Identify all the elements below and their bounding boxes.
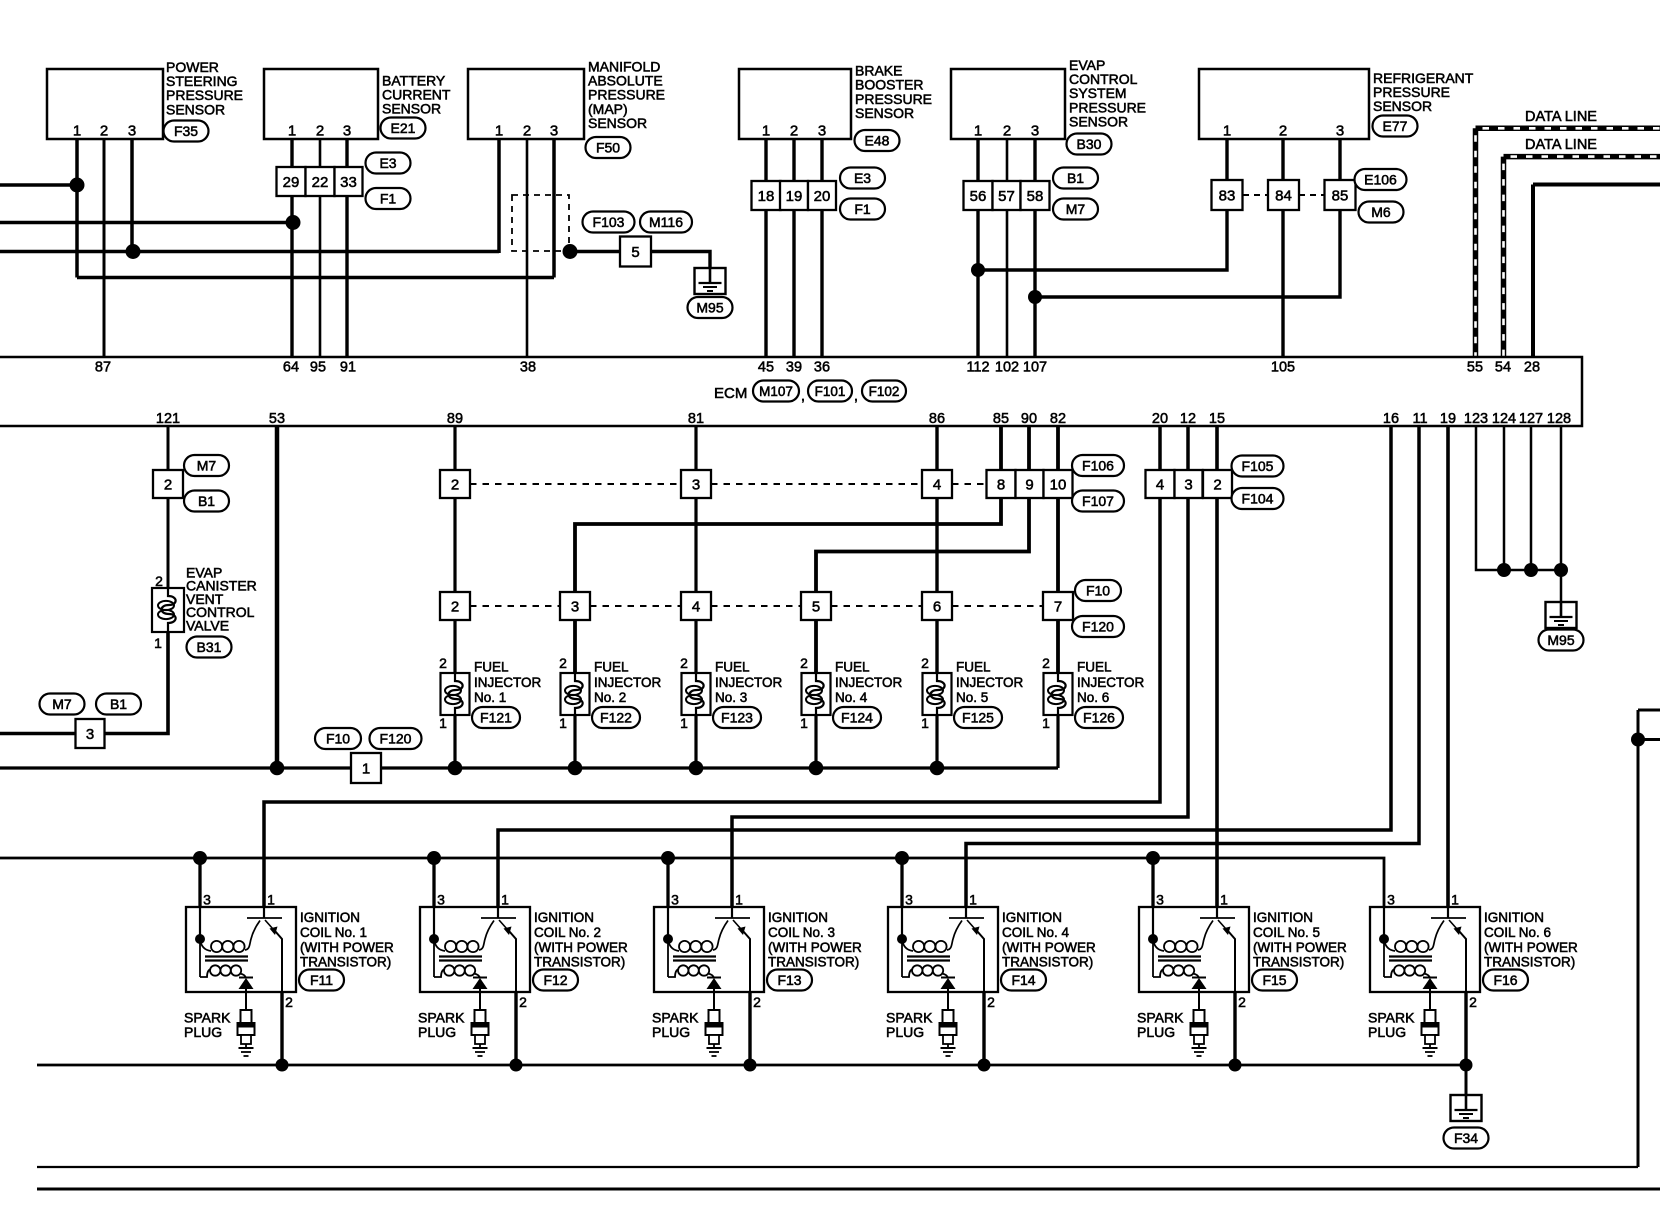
wire E77 pin 3 down and left to evap pin 3 bbox=[1035, 139, 1340, 297]
svg-text:3: 3 bbox=[905, 892, 913, 908]
label IGNITION COIL No. 1 bbox=[300, 910, 394, 970]
svg-text:16: 16 bbox=[1383, 411, 1399, 427]
svg-text:F1: F1 bbox=[854, 201, 871, 217]
svg-text:1: 1 bbox=[974, 123, 982, 140]
connector oval M6 bbox=[1359, 202, 1404, 223]
svg-text:B30: B30 bbox=[1077, 136, 1102, 152]
wire injector 2 to bus bbox=[573, 715, 576, 768]
svg-text:5: 5 bbox=[812, 599, 820, 616]
fuel injector No. 1 coil bbox=[441, 673, 470, 715]
connector oval E48 bbox=[855, 130, 900, 151]
svg-text:F120: F120 bbox=[1082, 619, 1114, 635]
connector oval B31 bbox=[187, 637, 232, 658]
svg-text:F10: F10 bbox=[326, 731, 350, 747]
svg-text:F121: F121 bbox=[480, 710, 512, 726]
svg-text:3: 3 bbox=[818, 123, 826, 140]
connector oval B1 (evap sensor) bbox=[1053, 168, 1098, 189]
fuel injector No. 4 coil bbox=[802, 673, 831, 715]
ground symbol M95 (ECM grounds) bbox=[1546, 602, 1577, 628]
label EVAP CONTROL SYSTEM PRESSURE SENSOR bbox=[1069, 57, 1146, 129]
svg-text:SENSOR: SENSOR bbox=[382, 101, 441, 117]
wire F35 pin 3 down to net C bbox=[130, 139, 134, 252]
svg-text:124: 124 bbox=[1492, 411, 1516, 427]
connector oval E3 (battery) bbox=[366, 153, 411, 174]
connector block 18 19 20 bbox=[752, 181, 837, 210]
connector box 4 (row1 inj5) bbox=[922, 470, 952, 498]
svg-text:56: 56 bbox=[970, 188, 987, 205]
svg-text:PLUG: PLUG bbox=[886, 1024, 924, 1040]
pin labels 1 2 3 of E48 bbox=[762, 123, 826, 140]
svg-text:2: 2 bbox=[987, 994, 995, 1010]
connector block 83 bbox=[1212, 180, 1243, 210]
wire ECM 82 to injector 6 bbox=[1056, 426, 1060, 673]
svg-text:FUEL: FUEL bbox=[956, 660, 991, 675]
svg-text:DATA LINE: DATA LINE bbox=[1525, 137, 1597, 153]
connector box 1 on bus bbox=[351, 753, 381, 783]
svg-text:1: 1 bbox=[559, 715, 567, 731]
svg-text:3: 3 bbox=[203, 892, 211, 908]
svg-text:90: 90 bbox=[1021, 411, 1037, 427]
connector block 8 9 10 bbox=[987, 470, 1073, 498]
wire ECM 90 to injector 4 (via jog) bbox=[816, 426, 1029, 673]
svg-text:39: 39 bbox=[786, 360, 802, 376]
ECM label with connector ovals M107 F101 F102 bbox=[714, 381, 906, 405]
svg-text:(WITH POWER: (WITH POWER bbox=[1002, 940, 1096, 955]
spark plug coil 4 bbox=[940, 992, 957, 1056]
junction dot coil 4 pin 2 on ground bus bbox=[978, 1059, 991, 1072]
svg-text:F16: F16 bbox=[1493, 972, 1517, 988]
svg-text:IGNITION: IGNITION bbox=[1002, 910, 1062, 925]
label SPARK PLUG coil 3 bbox=[652, 1010, 699, 1041]
label IGNITION COIL No. 5 bbox=[1253, 910, 1347, 970]
wire injector 6 to bus bbox=[1056, 715, 1059, 768]
svg-text:DATA LINE: DATA LINE bbox=[1525, 109, 1597, 125]
connector oval M95 (ECM grounds) bbox=[1539, 630, 1584, 651]
fuel injector No. 3 coil bbox=[682, 673, 711, 715]
svg-text:INJECTOR: INJECTOR bbox=[594, 675, 662, 690]
wire injector 4 to bus bbox=[814, 715, 817, 768]
svg-text:91: 91 bbox=[340, 360, 356, 376]
wire net A from left edge bbox=[0, 183, 77, 187]
svg-text:3: 3 bbox=[1031, 123, 1039, 140]
ignition ground bus bbox=[37, 1064, 1466, 1067]
data line 2 vertical to ECM 54 bbox=[1501, 157, 1507, 356]
svg-text:2: 2 bbox=[559, 655, 567, 671]
svg-text:3: 3 bbox=[86, 726, 94, 743]
svg-text:1: 1 bbox=[921, 715, 929, 731]
connector oval F105 bbox=[1232, 456, 1284, 477]
connector oval F124 bbox=[833, 707, 881, 728]
svg-text:No. 4: No. 4 bbox=[835, 690, 868, 705]
svg-text:B1: B1 bbox=[1067, 170, 1084, 186]
wire right edge vertical bbox=[1637, 710, 1640, 1167]
pin labels 1 2 3 of E77 bbox=[1223, 123, 1344, 140]
connector oval F50 bbox=[586, 137, 631, 158]
svg-text:81: 81 bbox=[688, 411, 704, 427]
svg-text:2: 2 bbox=[439, 655, 447, 671]
svg-text:COIL No. 6: COIL No. 6 bbox=[1484, 925, 1551, 940]
label FUEL INJECTOR No. 1 bbox=[474, 660, 542, 706]
label SPARK PLUG coil 1 bbox=[184, 1010, 231, 1041]
connector block 85 bbox=[1325, 180, 1356, 210]
wire bus to coil 2 pin 3 bbox=[432, 858, 435, 918]
svg-text:3: 3 bbox=[128, 123, 136, 140]
svg-text:INJECTOR: INJECTOR bbox=[835, 675, 903, 690]
svg-text:2: 2 bbox=[921, 655, 929, 671]
svg-text:2: 2 bbox=[800, 655, 808, 671]
power steering pressure sensor box F35 bbox=[47, 69, 163, 139]
connector oval F16 bbox=[1483, 970, 1528, 991]
connector oval B30 bbox=[1067, 134, 1112, 155]
wire B30 pin 2 to ECM 102 bbox=[1006, 139, 1009, 356]
ECM box bbox=[0, 357, 1582, 426]
junction dot coil 5 pin 3 on bus bbox=[1146, 851, 1160, 865]
junction dot C on power steering pin 3 bbox=[126, 244, 141, 259]
svg-text:F123: F123 bbox=[721, 710, 753, 726]
label SPARK PLUG coil 2 bbox=[418, 1010, 465, 1041]
svg-text:2: 2 bbox=[1279, 123, 1287, 140]
svg-text:No. 1: No. 1 bbox=[474, 690, 506, 705]
junction dot injector 3 on bus bbox=[689, 761, 704, 776]
label FUEL INJECTOR No. 3 bbox=[715, 660, 783, 706]
svg-text:M116: M116 bbox=[649, 214, 683, 230]
label FUEL INJECTOR No. 5 bbox=[956, 660, 1024, 706]
ignition coil No. 2 with power transistor bbox=[420, 907, 530, 992]
connector oval F120 (bus) bbox=[370, 728, 422, 749]
svg-text:3: 3 bbox=[1336, 123, 1344, 140]
label MANIFOLD ABSOLUTE PRESSURE (MAP) SENSOR bbox=[588, 59, 665, 131]
label IGNITION COIL No. 3 bbox=[768, 910, 862, 970]
spark plug coil 2 bbox=[472, 992, 489, 1056]
svg-text:8: 8 bbox=[997, 477, 1005, 494]
svg-text:IGNITION: IGNITION bbox=[300, 910, 360, 925]
connector oval F106 bbox=[1072, 455, 1124, 476]
wire E21 pin 1 to ECM 64 bbox=[290, 139, 293, 356]
wire ECM 20 to ignition coil 1 pin 1 bbox=[264, 426, 1160, 918]
junction dot coil 6 pin 2 on ground bus bbox=[1460, 1059, 1473, 1072]
wire coil 6 pin 2 to ground bus bbox=[1464, 992, 1467, 1065]
junction dot injector 4 on bus bbox=[809, 761, 824, 776]
connector oval E77 bbox=[1373, 116, 1418, 137]
svg-text:No. 5: No. 5 bbox=[956, 690, 988, 705]
label SPARK PLUG coil 5 bbox=[1137, 1010, 1184, 1041]
wire connector 5 to ground bbox=[651, 252, 710, 269]
pin labels 1 2 3 of F35 bbox=[73, 123, 136, 140]
connector oval M95 (sensor shield) bbox=[688, 297, 733, 318]
svg-text:105: 105 bbox=[1271, 360, 1295, 376]
connector box 2 (row2 inj1) bbox=[440, 592, 470, 620]
svg-text:F120: F120 bbox=[380, 731, 412, 747]
svg-text:COIL No. 5: COIL No. 5 bbox=[1253, 925, 1320, 940]
label IGNITION COIL No. 2 bbox=[534, 910, 628, 970]
svg-text:PLUG: PLUG bbox=[1137, 1024, 1175, 1040]
svg-text:2: 2 bbox=[790, 123, 798, 140]
junction dot right edge bbox=[1631, 733, 1645, 747]
connector oval F34 bbox=[1444, 1128, 1489, 1149]
junction dot coil 1 pin 2 on ground bus bbox=[276, 1059, 289, 1072]
connector box 7 (row2 inj6) bbox=[1043, 592, 1073, 620]
svg-text:57: 57 bbox=[998, 188, 1015, 205]
connector box 4 (row2 inj3) bbox=[681, 592, 711, 620]
connector block 29 22 33 bbox=[277, 167, 363, 196]
wire ECM 124 down bbox=[1503, 426, 1506, 570]
manifold absolute pressure sensor box F50 bbox=[468, 69, 584, 139]
wire injector 5 to bus bbox=[935, 715, 938, 768]
svg-text:M95: M95 bbox=[696, 300, 723, 316]
data line 1 vertical to ECM 55 bbox=[1473, 128, 1479, 356]
svg-text:20: 20 bbox=[1152, 411, 1168, 427]
svg-text:3: 3 bbox=[437, 892, 445, 908]
svg-text:M7: M7 bbox=[1066, 201, 1086, 217]
connector row F106/F107 dashed links bbox=[470, 483, 987, 485]
connector oval F107 bbox=[1072, 491, 1124, 512]
svg-text:112: 112 bbox=[966, 360, 989, 376]
svg-text:95: 95 bbox=[310, 360, 326, 376]
wire B30 pin 1 to ECM 112 bbox=[976, 139, 979, 356]
connector oval F123 bbox=[713, 707, 761, 728]
pin labels 1 2 3 of B30 bbox=[974, 123, 1039, 140]
wire net C from left edge (sensor ground) bbox=[0, 250, 499, 254]
svg-text:2: 2 bbox=[155, 573, 163, 589]
svg-text:INJECTOR: INJECTOR bbox=[956, 675, 1024, 690]
svg-text:COIL No. 1: COIL No. 1 bbox=[300, 925, 367, 940]
svg-text:6: 6 bbox=[933, 599, 941, 616]
connector oval M116 bbox=[640, 212, 692, 233]
svg-text:2: 2 bbox=[519, 994, 527, 1010]
wire E48 pin 1 to ECM 45 bbox=[764, 139, 767, 356]
svg-text:B1: B1 bbox=[198, 493, 215, 509]
svg-text:F105: F105 bbox=[1242, 458, 1274, 474]
svg-text:2: 2 bbox=[100, 123, 108, 140]
svg-text:1: 1 bbox=[762, 123, 770, 140]
wire E48 pin 3 to ECM 36 bbox=[820, 139, 823, 356]
shield dashed box around MAP pin 2 wire bbox=[512, 195, 569, 251]
svg-text:28: 28 bbox=[1524, 360, 1540, 376]
junction dot A on power steering pin 1 bbox=[70, 178, 85, 193]
svg-text:10: 10 bbox=[1050, 477, 1067, 494]
wire ECM 89 to injector 1 bbox=[453, 426, 456, 673]
svg-text:3: 3 bbox=[671, 892, 679, 908]
junction dot 127 bbox=[1524, 563, 1538, 577]
wire E77 pin 2 to ECM 105 bbox=[1281, 139, 1284, 356]
wire E21 pin 2 to ECM 95 bbox=[319, 139, 322, 356]
connector box 2 (evap valve) bbox=[153, 470, 183, 498]
wire connector 3 to left edge bbox=[0, 732, 76, 736]
svg-text:53: 53 bbox=[269, 411, 285, 427]
wire ECM 53 down to bus bbox=[275, 426, 280, 768]
svg-text:1: 1 bbox=[735, 892, 743, 908]
svg-text:F124: F124 bbox=[841, 710, 873, 726]
svg-text:45: 45 bbox=[758, 360, 774, 376]
svg-text:102: 102 bbox=[995, 360, 1019, 376]
wire shield drain to connector 5 bbox=[570, 250, 620, 253]
label BRAKE BOOSTER PRESSURE SENSOR bbox=[855, 63, 932, 121]
svg-text:No. 6: No. 6 bbox=[1077, 690, 1109, 705]
wire F50 pin 2 to ECM 38 bbox=[526, 139, 529, 356]
svg-text:84: 84 bbox=[1275, 188, 1292, 205]
junction dot injector 2 on bus bbox=[568, 761, 583, 776]
svg-text:3: 3 bbox=[1387, 892, 1395, 908]
connector box 5 (row2 inj4) bbox=[801, 592, 831, 620]
evap canister vent control valve coil B31 bbox=[152, 588, 184, 632]
connector box 3 (row1 inj3) bbox=[681, 470, 711, 498]
data line 2 horizontal (shielded) bbox=[1504, 154, 1660, 160]
svg-text:89: 89 bbox=[447, 411, 463, 427]
dashed link 84-85 bbox=[1299, 194, 1325, 196]
wire coil 3 pin 2 to ground bus bbox=[748, 992, 751, 1065]
svg-text:PLUG: PLUG bbox=[184, 1024, 222, 1040]
svg-text:F50: F50 bbox=[596, 140, 620, 156]
dashed link 83-84 bbox=[1243, 194, 1268, 196]
svg-text:COIL No. 4: COIL No. 4 bbox=[1002, 925, 1070, 940]
svg-text:20: 20 bbox=[814, 188, 831, 205]
svg-text:F34: F34 bbox=[1454, 1130, 1478, 1146]
svg-text:COIL No. 2: COIL No. 2 bbox=[534, 925, 601, 940]
wire ECM 16 to ignition coil 2 pin 1 bbox=[498, 426, 1391, 918]
svg-text:E21: E21 bbox=[391, 120, 416, 136]
svg-text:3: 3 bbox=[571, 599, 579, 616]
svg-text:38: 38 bbox=[520, 360, 536, 376]
svg-text:E77: E77 bbox=[1383, 118, 1408, 134]
svg-text:SENSOR: SENSOR bbox=[588, 115, 647, 131]
spark plug coil 6 bbox=[1422, 992, 1439, 1056]
connector box 3 bbox=[76, 719, 105, 748]
junction dot coil 3 pin 3 on bus bbox=[661, 851, 675, 865]
label FUEL INJECTOR No. 4 bbox=[835, 660, 903, 706]
ignition coil supply bus bbox=[0, 858, 1384, 918]
svg-text:VALVE: VALVE bbox=[186, 617, 229, 633]
connector oval E3 (brake booster) bbox=[840, 168, 885, 189]
data line 1 horizontal (shielded) bbox=[1476, 126, 1660, 132]
connector oval F1 (battery) bbox=[366, 188, 411, 209]
wire coil 1 pin 2 to ground bus bbox=[280, 992, 283, 1065]
connector oval F126 bbox=[1075, 707, 1123, 728]
svg-text:PLUG: PLUG bbox=[1368, 1024, 1406, 1040]
svg-text:F14: F14 bbox=[1011, 972, 1035, 988]
svg-text:1: 1 bbox=[288, 123, 296, 140]
brake booster pressure sensor box E48 bbox=[739, 69, 851, 139]
svg-text:M6: M6 bbox=[1371, 204, 1391, 220]
svg-text:1: 1 bbox=[680, 715, 688, 731]
wire ECM 12 to ignition coil 3 pin 1 bbox=[732, 426, 1188, 918]
wire ECM 15 to ignition coil 5 pin 1 bbox=[1215, 426, 1219, 918]
svg-text:F125: F125 bbox=[962, 710, 994, 726]
svg-text:82: 82 bbox=[1050, 411, 1066, 427]
svg-text:B31: B31 bbox=[197, 639, 222, 655]
svg-text:3: 3 bbox=[550, 123, 558, 140]
junction dot coil 4 pin 3 on bus bbox=[895, 851, 909, 865]
svg-text:SENSOR: SENSOR bbox=[855, 105, 914, 121]
ignition coil No. 3 with power transistor bbox=[654, 907, 764, 992]
wire bus to coil 5 pin 3 bbox=[1151, 858, 1154, 918]
fuel injector No. 5 coil bbox=[923, 673, 952, 715]
svg-text:3: 3 bbox=[1184, 477, 1192, 494]
svg-text:E106: E106 bbox=[1364, 172, 1397, 188]
svg-text:M95: M95 bbox=[1547, 632, 1574, 648]
junction dot evap pin1 / refrigerant pin1 bbox=[971, 263, 985, 277]
svg-text:No. 3: No. 3 bbox=[715, 690, 747, 705]
connector oval M7 (valve top) bbox=[184, 455, 229, 476]
pin labels 1 2 3 of E21 bbox=[288, 123, 351, 140]
refrigerant pressure sensor box E77 bbox=[1199, 69, 1369, 139]
label SPARK PLUG coil 4 bbox=[886, 1010, 933, 1041]
svg-text:M7: M7 bbox=[197, 458, 217, 474]
wire E77 pin 1 down and left to evap pin 1 bbox=[978, 139, 1227, 270]
wire ECM 19 to ignition coil 6 pin 1 bbox=[1446, 426, 1450, 918]
label SPARK PLUG coil 6 bbox=[1368, 1010, 1415, 1041]
wire MAP pin 3 down bbox=[552, 139, 556, 278]
connector oval F125 bbox=[954, 707, 1002, 728]
connector oval F10 (row2) bbox=[1075, 580, 1121, 601]
svg-text:55: 55 bbox=[1467, 360, 1483, 376]
ignition coil No. 1 with power transistor bbox=[186, 907, 296, 992]
wire bus to coil 3 pin 3 bbox=[666, 858, 669, 918]
svg-text:F1: F1 bbox=[380, 191, 397, 207]
svg-text:2: 2 bbox=[164, 477, 172, 494]
bottom rail 1 bbox=[37, 1166, 1638, 1168]
svg-text:1: 1 bbox=[800, 715, 808, 731]
ignition coil No. 6 with power transistor bbox=[1370, 907, 1480, 992]
svg-text:(WITH POWER: (WITH POWER bbox=[1484, 940, 1578, 955]
svg-text:,: , bbox=[854, 388, 858, 405]
svg-text:F103: F103 bbox=[593, 214, 625, 230]
svg-text:FUEL: FUEL bbox=[835, 660, 870, 675]
svg-text:FUEL: FUEL bbox=[594, 660, 629, 675]
svg-text:M7: M7 bbox=[52, 696, 72, 712]
svg-text:F13: F13 bbox=[777, 972, 801, 988]
spark plug coil 3 bbox=[706, 992, 723, 1056]
svg-text:No. 2: No. 2 bbox=[594, 690, 626, 705]
wire bus to coil 1 pin 3 bbox=[198, 858, 201, 918]
svg-text:58: 58 bbox=[1027, 188, 1044, 205]
svg-text:IGNITION: IGNITION bbox=[768, 910, 828, 925]
svg-text:INJECTOR: INJECTOR bbox=[715, 675, 783, 690]
svg-text:2: 2 bbox=[451, 477, 459, 494]
svg-text:TRANSISTOR): TRANSISTOR) bbox=[1484, 955, 1575, 970]
wire B30 pin 3 to ECM 107 bbox=[1033, 139, 1036, 356]
svg-text:F10: F10 bbox=[1086, 583, 1110, 599]
svg-text:(WITH POWER: (WITH POWER bbox=[300, 940, 394, 955]
connector box 3 (row2 inj2) bbox=[560, 592, 590, 620]
svg-text:19: 19 bbox=[786, 188, 803, 205]
svg-text:FUEL: FUEL bbox=[474, 660, 509, 675]
svg-text:TRANSISTOR): TRANSISTOR) bbox=[1253, 955, 1344, 970]
wire injector 1 to bus bbox=[453, 715, 456, 768]
svg-text:1: 1 bbox=[154, 635, 162, 651]
ECM bottom pin numbers bbox=[156, 411, 1571, 427]
evap control system pressure sensor box B30 bbox=[951, 69, 1065, 139]
connector block 4 3 2 bbox=[1146, 470, 1233, 498]
wire ECM 127 down bbox=[1530, 426, 1533, 570]
label FUEL INJECTOR No. 2 bbox=[594, 660, 662, 706]
svg-text:PLUG: PLUG bbox=[418, 1024, 456, 1040]
fuel injector No. 6 coil bbox=[1044, 673, 1073, 715]
svg-text:SENSOR: SENSOR bbox=[1069, 113, 1128, 129]
svg-text:15: 15 bbox=[1209, 411, 1225, 427]
svg-text:29: 29 bbox=[283, 174, 300, 191]
svg-text:2: 2 bbox=[523, 123, 531, 140]
svg-text:3: 3 bbox=[1156, 892, 1164, 908]
wire to ECM 28 vertical bbox=[1531, 185, 1535, 357]
svg-text:2: 2 bbox=[285, 994, 293, 1010]
ignition coil No. 5 with power transistor bbox=[1139, 907, 1249, 992]
svg-text:TRANSISTOR): TRANSISTOR) bbox=[534, 955, 625, 970]
ground symbol M95 (sensor shield) bbox=[695, 268, 726, 294]
connector oval E106 bbox=[1355, 169, 1407, 190]
wire F35 pin 2 to ECM 87 bbox=[103, 139, 106, 356]
svg-text:F11: F11 bbox=[310, 972, 333, 988]
svg-text:F126: F126 bbox=[1083, 710, 1115, 726]
